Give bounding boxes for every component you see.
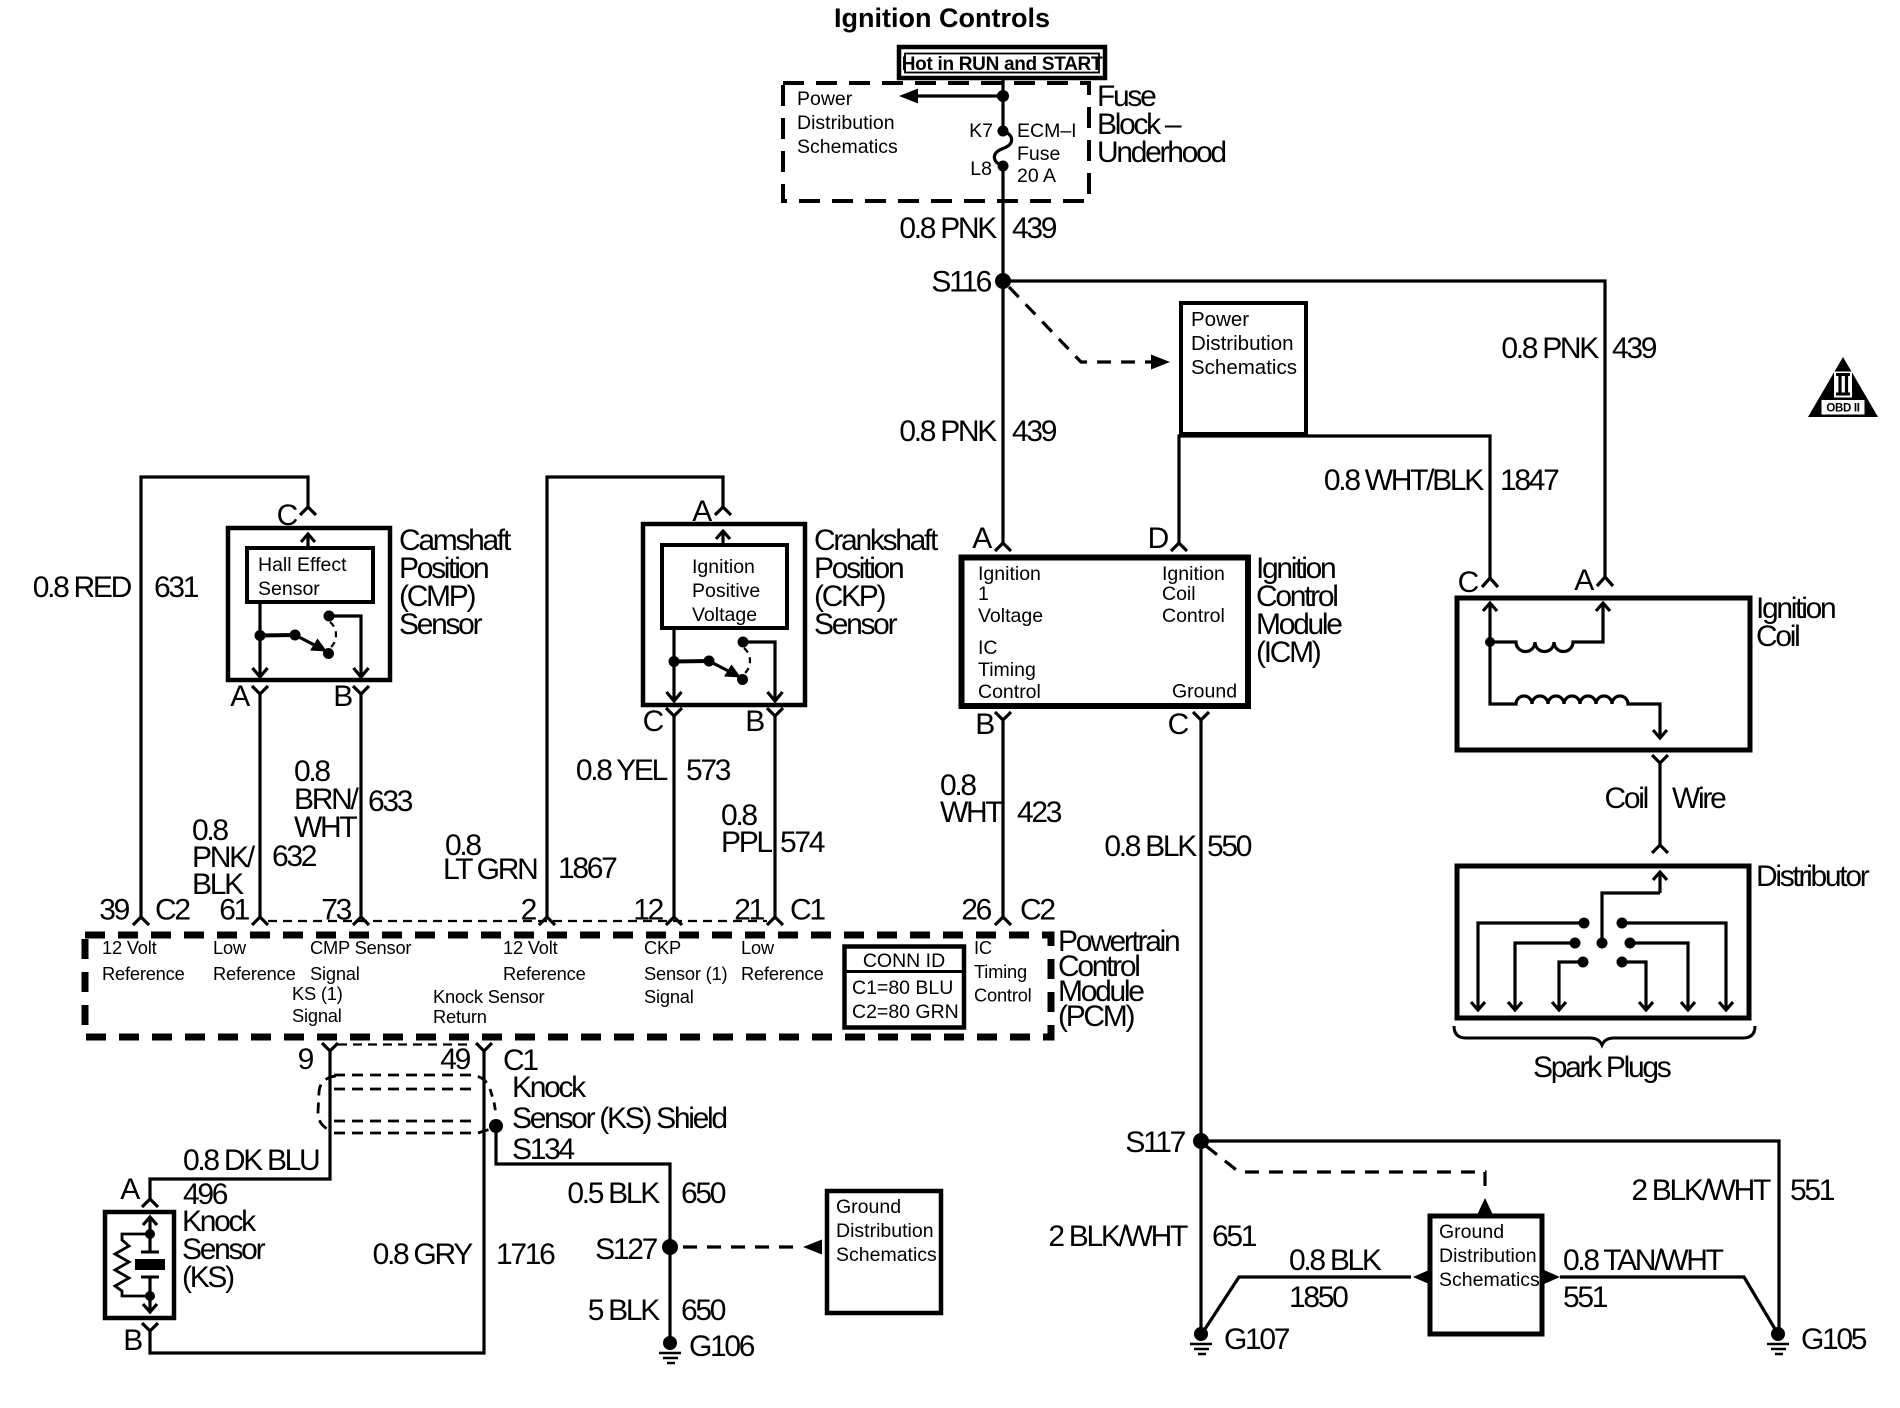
distributor plug wire 2 [1508, 943, 1575, 1010]
coil primary winding [1483, 603, 1610, 652]
svg-text:Distribution: Distribution [1439, 1245, 1537, 1267]
label: Crankshaft Position (CKP) Sensor [814, 524, 939, 641]
ground G105 [1767, 1323, 1867, 1356]
wire label 2 BLK/WHT 551 [1631, 1174, 1834, 1207]
wire label 0.8 YEL 573 [576, 754, 731, 787]
svg-text:0.8 DK BLU: 0.8 DK BLU [183, 1144, 319, 1177]
svg-text:Voltage: Voltage [978, 605, 1043, 627]
svg-text:ECM–I: ECM–I [1017, 120, 1077, 142]
svg-text:Schematics: Schematics [836, 1244, 937, 1266]
svg-text:Distributor: Distributor [1756, 860, 1870, 893]
distributor box [1457, 866, 1749, 1018]
svg-text:A: A [1574, 564, 1594, 597]
svg-text:C2: C2 [155, 894, 190, 927]
svg-text:Sensor: Sensor [258, 578, 320, 600]
svg-text:Timing: Timing [974, 961, 1027, 982]
coil pin A [1574, 564, 1613, 597]
label: Knock Sensor (KS) Shield S134 [512, 1071, 726, 1166]
svg-text:551: 551 [1563, 1281, 1608, 1314]
CKP internal switch: B leg [743, 642, 783, 701]
arrow out of Ground Distribution Schematics (right) [1544, 1270, 1560, 1284]
CKP pin B [745, 705, 783, 738]
CMP internal switch: A leg [253, 602, 268, 677]
svg-text:G105: G105 [1801, 1323, 1867, 1356]
svg-text:Ground: Ground [1172, 681, 1237, 703]
label: Power Distribution Schematics (fuse block) [797, 88, 898, 158]
label: Powertrain Control Module (PCM) [1058, 925, 1179, 1033]
ICM ignition control module box [962, 558, 1249, 707]
PCM pin 49 C1 [440, 1043, 538, 1077]
svg-text:S117: S117 [1125, 1126, 1185, 1159]
wire label 0.8 BLK 1850 [1289, 1244, 1382, 1314]
svg-text:12 Volt: 12 Volt [102, 937, 157, 958]
ignition coil box [1457, 598, 1750, 750]
dashed reference arrow S117 to Ground Distribution Schematics [1206, 1146, 1493, 1214]
CKP internal switch: C leg [667, 628, 682, 701]
svg-text:Reference: Reference [102, 963, 185, 984]
wire label 0.8 PNK 439 (upper) [899, 212, 1056, 245]
svg-text:Signal: Signal [292, 1005, 342, 1026]
svg-text:Schematics: Schematics [1191, 356, 1297, 379]
wire 551 BLK/WHT: S117 right to G105 [1201, 1141, 1779, 1330]
PCM CONN ID table [845, 947, 965, 1028]
svg-text:Reference: Reference [213, 963, 296, 984]
svg-text:G106: G106 [689, 1330, 755, 1363]
CMP internal switch: junction dots and lever [255, 611, 337, 660]
svg-text:Sensor: Sensor [399, 608, 483, 641]
svg-text:39: 39 [99, 894, 129, 927]
svg-text:A: A [120, 1173, 140, 1206]
CKP pin C [643, 705, 682, 738]
PCM function label: CMP Sensor Signal (pin 73) [310, 937, 411, 984]
distributor plug wire 1 [1471, 923, 1584, 1010]
svg-text:1867: 1867 [558, 852, 617, 885]
svg-text:CMP Sensor: CMP Sensor [310, 937, 411, 958]
wire label 0.8 DK BLU 496 [183, 1144, 319, 1211]
KS internal: top arrow and junction [143, 1217, 157, 1239]
wire label Coil Wire [1605, 782, 1727, 815]
coil secondary winding [1490, 642, 1667, 738]
PCM pin 73 [321, 894, 369, 927]
svg-text:Spark Plugs: Spark Plugs [1533, 1051, 1671, 1084]
svg-text:C: C [277, 499, 298, 532]
svg-text:0.8 YEL: 0.8 YEL [576, 754, 668, 787]
svg-text:650: 650 [681, 1177, 726, 1210]
wire 1716 GRY: PCM pin 49 down, left to knock sensor B [150, 1051, 484, 1353]
PCM pin 2 [521, 894, 555, 927]
wire 631 RED: CMP C up and left down to PCM pin 39 [141, 477, 308, 917]
dashed reference arrow S116 to Power Distribution Schematics [1009, 287, 1170, 370]
wire label 0.8 WHT/BLK 1847 [1324, 464, 1559, 497]
svg-text:Timing: Timing [978, 659, 1036, 681]
knock sensor shield (dashed) [318, 1075, 496, 1133]
svg-text:439: 439 [1612, 332, 1657, 365]
node: junction dot above fuse [997, 90, 1009, 102]
CMP pin C [277, 499, 316, 532]
splice S116 [931, 266, 1011, 299]
PCM pin 26 C2 [961, 894, 1055, 927]
svg-text:A: A [972, 522, 992, 555]
svg-text:Ignition: Ignition [978, 563, 1041, 585]
wire: arrow to Power Distribution Schematics (left) [899, 89, 1003, 104]
svg-text:633: 633 [368, 785, 413, 818]
svg-text:0.8 PNK: 0.8 PNK [899, 415, 997, 448]
svg-text:A: A [230, 680, 250, 713]
svg-text:0.8 BLK: 0.8 BLK [1104, 830, 1197, 863]
svg-text:Voltage: Voltage [692, 604, 757, 626]
svg-text:0.8 GRY: 0.8 GRY [373, 1238, 474, 1271]
svg-text:K7: K7 [969, 120, 993, 142]
svg-text:Power: Power [797, 88, 853, 110]
PCM function label: KS (1) Signal (pin 9) [292, 983, 343, 1026]
wire label 0.8 BLK 550 [1104, 830, 1251, 863]
svg-text:Return: Return [433, 1006, 487, 1027]
distributor plug wire 4 [1622, 962, 1653, 1010]
svg-text:B: B [333, 680, 352, 713]
svg-text:C: C [1168, 708, 1189, 741]
svg-text:Sensor: Sensor [814, 608, 898, 641]
PCM connector C1 dashed pin line (bottom) [338, 1043, 471, 1045]
CMP inner box: Hall Effect Sensor [247, 548, 373, 602]
svg-text:C1: C1 [790, 894, 825, 927]
wire 650 BLK: S134 drain to S127 to G106 [496, 1126, 670, 1343]
svg-text:20 A: 20 A [1017, 165, 1056, 187]
svg-text:61: 61 [219, 894, 249, 927]
svg-text:Control: Control [978, 681, 1041, 703]
svg-text:2 BLK/WHT: 2 BLK/WHT [1048, 1220, 1188, 1253]
svg-text:0.8 PNK: 0.8 PNK [899, 212, 997, 245]
knock sensor KS box [105, 1212, 174, 1318]
dashed reference arrow S127 to Ground Distribution Schematics [683, 1240, 822, 1255]
svg-text:1: 1 [978, 583, 989, 605]
svg-text:CKP: CKP [644, 937, 681, 958]
PCM powertrain control module dashed box [85, 935, 1051, 1037]
PCM pin 39 C2 [99, 894, 190, 927]
wire 496 DK BLU: PCM pin 9 to knock sensor A [150, 1051, 330, 1199]
svg-text:Signal: Signal [310, 963, 360, 984]
arrow into Ground Distribution Schematics (left) [1413, 1270, 1429, 1284]
svg-text:C1=80 BLU: C1=80 BLU [852, 977, 953, 999]
wire label 0.8 BRN/WHT 633 [294, 755, 413, 844]
svg-text:OBD II: OBD II [1826, 403, 1859, 415]
splice S134 (shield drain) [489, 1119, 503, 1133]
wire 439 PNK: S116 to ICM pin A [1001, 281, 1004, 543]
svg-text:Ground: Ground [1439, 1221, 1504, 1243]
svg-text:Low: Low [741, 937, 775, 958]
PCM function label: IC Timing Control (pin 26) [974, 937, 1032, 1006]
KS pin B [123, 1323, 158, 1357]
KS internal: piezo capacitor element [135, 1234, 165, 1296]
label: Knock Sensor (KS) [182, 1205, 266, 1294]
svg-text:551: 551 [1790, 1174, 1835, 1207]
PCM function label: Knock Sensor Return (pin 49) [433, 986, 545, 1027]
PCM function label: Low Reference (pin 61) [213, 937, 296, 984]
svg-text:439: 439 [1012, 415, 1057, 448]
PCM connector C1 dashed pin line (top) [268, 920, 767, 922]
CMP sensor box [228, 528, 390, 680]
wire label 5 BLK 650 [588, 1294, 726, 1327]
svg-text:0.8 PNK: 0.8 PNK [1501, 332, 1599, 365]
svg-text:A: A [692, 495, 712, 528]
svg-text:12 Volt: 12 Volt [503, 937, 558, 958]
svg-text:21: 21 [734, 894, 764, 927]
box: Ground Distribution Schematics (S127 reference) [827, 1191, 941, 1313]
wire label 0.8 GRY 1716 [373, 1238, 556, 1271]
wire 574 PPL: CKP B to PCM pin 21 [773, 716, 776, 917]
svg-text:Reference: Reference [741, 963, 824, 984]
CKP internal arrow up to pin A [716, 531, 730, 545]
svg-text:0.8 TAN/WHT: 0.8 TAN/WHT [1563, 1244, 1724, 1277]
CMP internal switch: B leg [329, 616, 369, 677]
svg-text:550: 550 [1207, 830, 1252, 863]
PCM pin 61 [219, 894, 268, 927]
wire 439 PNK: S116 right to ignition coil A [1003, 281, 1605, 577]
svg-text:423: 423 [1017, 796, 1062, 829]
svg-text:1850: 1850 [1289, 1281, 1348, 1314]
KS internal: bottom junction and arrow [143, 1291, 157, 1312]
wire 633 BRN/WHT: CMP B to PCM pin 73 [359, 694, 362, 917]
fuse block underhood dashed box [783, 83, 1089, 201]
svg-text:Control: Control [974, 985, 1032, 1006]
svg-text:Distribution: Distribution [797, 112, 895, 134]
svg-text:KS (1): KS (1) [292, 983, 343, 1004]
svg-text:Sensor (1): Sensor (1) [644, 963, 727, 984]
CMP internal arrow up to pin C [301, 534, 315, 548]
svg-text:0.8 WHT/BLK: 0.8 WHT/BLK [1324, 464, 1484, 497]
svg-text:C2: C2 [1020, 894, 1055, 927]
svg-text:Distribution: Distribution [1191, 332, 1294, 355]
wire label 0.5 BLK 650 [567, 1177, 725, 1210]
label: Camshaft Position (CMP) Sensor [399, 524, 512, 641]
wire 551 TAN/WHT: Ground Distribution Schematics to G105 [1560, 1277, 1775, 1329]
svg-text:PPL: PPL [721, 826, 772, 859]
svg-text:Sensor (KS) Shield: Sensor (KS) Shield [512, 1102, 726, 1135]
svg-text:651: 651 [1212, 1220, 1257, 1253]
CMP pin A [230, 680, 268, 713]
svg-text:(PCM): (PCM) [1058, 1000, 1134, 1033]
svg-text:IC: IC [978, 637, 998, 659]
label: Fuse Block - Underhood [1097, 80, 1225, 169]
svg-text:Ground: Ground [836, 1196, 901, 1218]
svg-text:9: 9 [298, 1043, 314, 1076]
distributor input connector [1652, 845, 1668, 853]
svg-text:Power: Power [1191, 308, 1249, 331]
ICM pin A [972, 522, 1011, 555]
svg-text:IC: IC [974, 937, 992, 958]
svg-text:2: 2 [521, 894, 537, 927]
svg-text:Schematics: Schematics [1439, 1269, 1540, 1291]
wire label 0.8 WHT 423 [940, 769, 1062, 829]
svg-text:Distribution: Distribution [836, 1220, 934, 1242]
OBD II symbol [1808, 357, 1878, 417]
svg-text:Knock Sensor: Knock Sensor [433, 986, 545, 1007]
CMP pin B [333, 680, 369, 713]
splice S117 [1125, 1126, 1209, 1159]
svg-text:1716: 1716 [496, 1238, 555, 1271]
wire 1867 LT GRN: CKP A up and left down to PCM pin 2 [547, 477, 723, 917]
svg-text:Ignition Controls: Ignition Controls [834, 3, 1050, 33]
wire label 0.8 PNK 439 (to ICM A) [899, 415, 1056, 448]
wire 1850 BLK: G107 to Ground Distribution Schematics [1205, 1277, 1411, 1329]
svg-text:Ignition: Ignition [692, 556, 755, 578]
wire 651 BLK/WHT: S117 down to G107 [1199, 1141, 1202, 1330]
svg-text:(ICM): (ICM) [1256, 636, 1321, 669]
svg-text:G107: G107 [1224, 1323, 1290, 1356]
svg-text:C2=80 GRN: C2=80 GRN [852, 1001, 959, 1023]
svg-text:Positive: Positive [692, 580, 760, 602]
wire label 0.8 PNK 439 (right branch) [1501, 332, 1656, 365]
distributor rotor input [1597, 872, 1668, 949]
CKP inner box: Ignition Positive Voltage [662, 545, 787, 628]
svg-text:Wire: Wire [1672, 782, 1726, 815]
svg-text:Underhood: Underhood [1097, 136, 1225, 169]
svg-text:631: 631 [154, 571, 199, 604]
power label box: Hot in RUN and START [899, 47, 1105, 78]
svg-text:632: 632 [272, 840, 317, 873]
box: Ground Distribution Schematics (bottom right) [1430, 1216, 1542, 1334]
distributor cap contacts [1570, 918, 1636, 968]
KS pin A [120, 1173, 158, 1207]
wire 423 WHT: ICM B to PCM pin 26 [1001, 720, 1004, 917]
svg-text:574: 574 [780, 826, 825, 859]
wire label 0.8 LT GRN 1867 [443, 829, 617, 886]
svg-text:C: C [1458, 566, 1479, 599]
box: Power Distribution Schematics (S116 reference) [1181, 303, 1306, 434]
svg-text:650: 650 [681, 1294, 726, 1327]
svg-text:1847: 1847 [1500, 464, 1559, 497]
PCM function label: CKP Sensor (1) Signal (pin 12) [644, 937, 727, 1007]
CKP pin A [692, 495, 731, 528]
wire 573 YEL: CKP C to PCM pin 12 [672, 716, 675, 917]
svg-text:Low: Low [213, 937, 247, 958]
KS internal: resistor [115, 1234, 150, 1296]
distributor plug wire 5 [1630, 943, 1695, 1010]
wire: battery feed from Hot box down to fuse [1001, 78, 1004, 131]
svg-text:73: 73 [321, 894, 351, 927]
svg-text:Coil: Coil [1162, 583, 1196, 605]
CKP sensor box [643, 524, 805, 705]
svg-text:0.8 BLK: 0.8 BLK [1289, 1244, 1382, 1277]
svg-text:Signal: Signal [644, 986, 694, 1007]
fuse value label: ECM-I Fuse 20 A [1017, 120, 1077, 187]
svg-text:B: B [975, 708, 994, 741]
svg-text:0.8 RED: 0.8 RED [33, 571, 132, 604]
svg-text:L8: L8 [970, 158, 992, 180]
coil pin C [1458, 566, 1498, 599]
svg-text:439: 439 [1012, 212, 1057, 245]
svg-text:WHT: WHT [294, 811, 357, 844]
svg-text:Control: Control [1162, 605, 1225, 627]
label: Ignition Control Module (ICM) [1256, 552, 1342, 669]
wire label 0.8 PPL 574 [721, 799, 825, 859]
wire label 0.8 PNK/BLK 632 [192, 814, 317, 901]
ground G107 [1190, 1323, 1290, 1356]
ICM inner label: Ignition Coil Control [1162, 563, 1225, 627]
svg-text:(KS): (KS) [182, 1261, 234, 1294]
svg-text:S116: S116 [931, 266, 991, 299]
distributor plug wire 3 [1552, 962, 1583, 1010]
PCM pin 21 C1 [734, 894, 825, 927]
svg-text:Ignition: Ignition [1162, 563, 1225, 585]
coil output connector [1652, 755, 1668, 763]
ICM pin B [975, 708, 1011, 741]
svg-text:26: 26 [961, 894, 991, 927]
svg-text:S127: S127 [595, 1233, 657, 1266]
ICM pin C [1168, 708, 1209, 741]
CKP internal switch: junction dots and lever [669, 637, 751, 686]
PCM function label: Low Reference (pin 21) [741, 937, 824, 984]
wire 439 PNK: fuse to S116 [1001, 166, 1004, 281]
svg-text:CONN ID: CONN ID [863, 950, 945, 972]
splice S127 [595, 1233, 678, 1266]
wire label 0.8 RED 631 [33, 571, 199, 604]
label: Ignition Coil [1756, 592, 1835, 653]
svg-text:D: D [1148, 522, 1169, 555]
PCM function label: 12 Volt Reference (pin 39) [102, 937, 185, 984]
svg-text:49: 49 [440, 1043, 470, 1076]
PCM function label: 12 Volt Reference (pin 2) [503, 937, 586, 984]
svg-text:B: B [123, 1324, 142, 1357]
svg-text:0.5 BLK: 0.5 BLK [567, 1177, 660, 1210]
svg-text:12: 12 [633, 894, 663, 927]
svg-text:C: C [643, 705, 664, 738]
PCM pin 9 [298, 1043, 338, 1076]
ICM pin D [1148, 522, 1187, 555]
distributor plug wire 6 [1622, 923, 1733, 1010]
svg-text:LT GRN: LT GRN [443, 853, 537, 886]
svg-text:Coil: Coil [1605, 782, 1648, 815]
wire 550 BLK: ICM C down to S117 [1199, 720, 1202, 1141]
svg-text:Fuse: Fuse [1017, 143, 1060, 165]
svg-text:Knock: Knock [512, 1071, 587, 1104]
svg-text:Hall Effect: Hall Effect [258, 554, 347, 576]
spark plugs brace [1454, 1026, 1755, 1045]
svg-text:Coil: Coil [1756, 620, 1799, 653]
PCM pin 12 [633, 894, 682, 927]
wire 1847 WHT/BLK: ICM D to coil C [1179, 436, 1490, 578]
fuse ECM-I 20A [994, 126, 1011, 172]
ground G106 [659, 1330, 755, 1363]
svg-text:S134: S134 [512, 1133, 574, 1166]
ICM inner label: IC Timing Control [978, 637, 1041, 703]
wire 632 PNK/BLK: CMP A to PCM pin 61 [258, 694, 261, 917]
svg-text:Schematics: Schematics [797, 136, 898, 158]
svg-text:Reference: Reference [503, 963, 586, 984]
svg-text:WHT: WHT [940, 796, 1003, 829]
ICM inner label: Ignition 1 Voltage [978, 563, 1043, 627]
coil wire [1658, 763, 1661, 845]
svg-text:5 BLK: 5 BLK [588, 1294, 661, 1327]
wire label 0.8 TAN/WHT 551 [1563, 1244, 1724, 1314]
svg-text:2 BLK/WHT: 2 BLK/WHT [1631, 1174, 1771, 1207]
svg-text:Hot in RUN and START: Hot in RUN and START [902, 54, 1103, 75]
wire label 2 BLK/WHT 651 [1048, 1220, 1256, 1253]
svg-text:573: 573 [686, 754, 731, 787]
svg-text:B: B [745, 705, 764, 738]
